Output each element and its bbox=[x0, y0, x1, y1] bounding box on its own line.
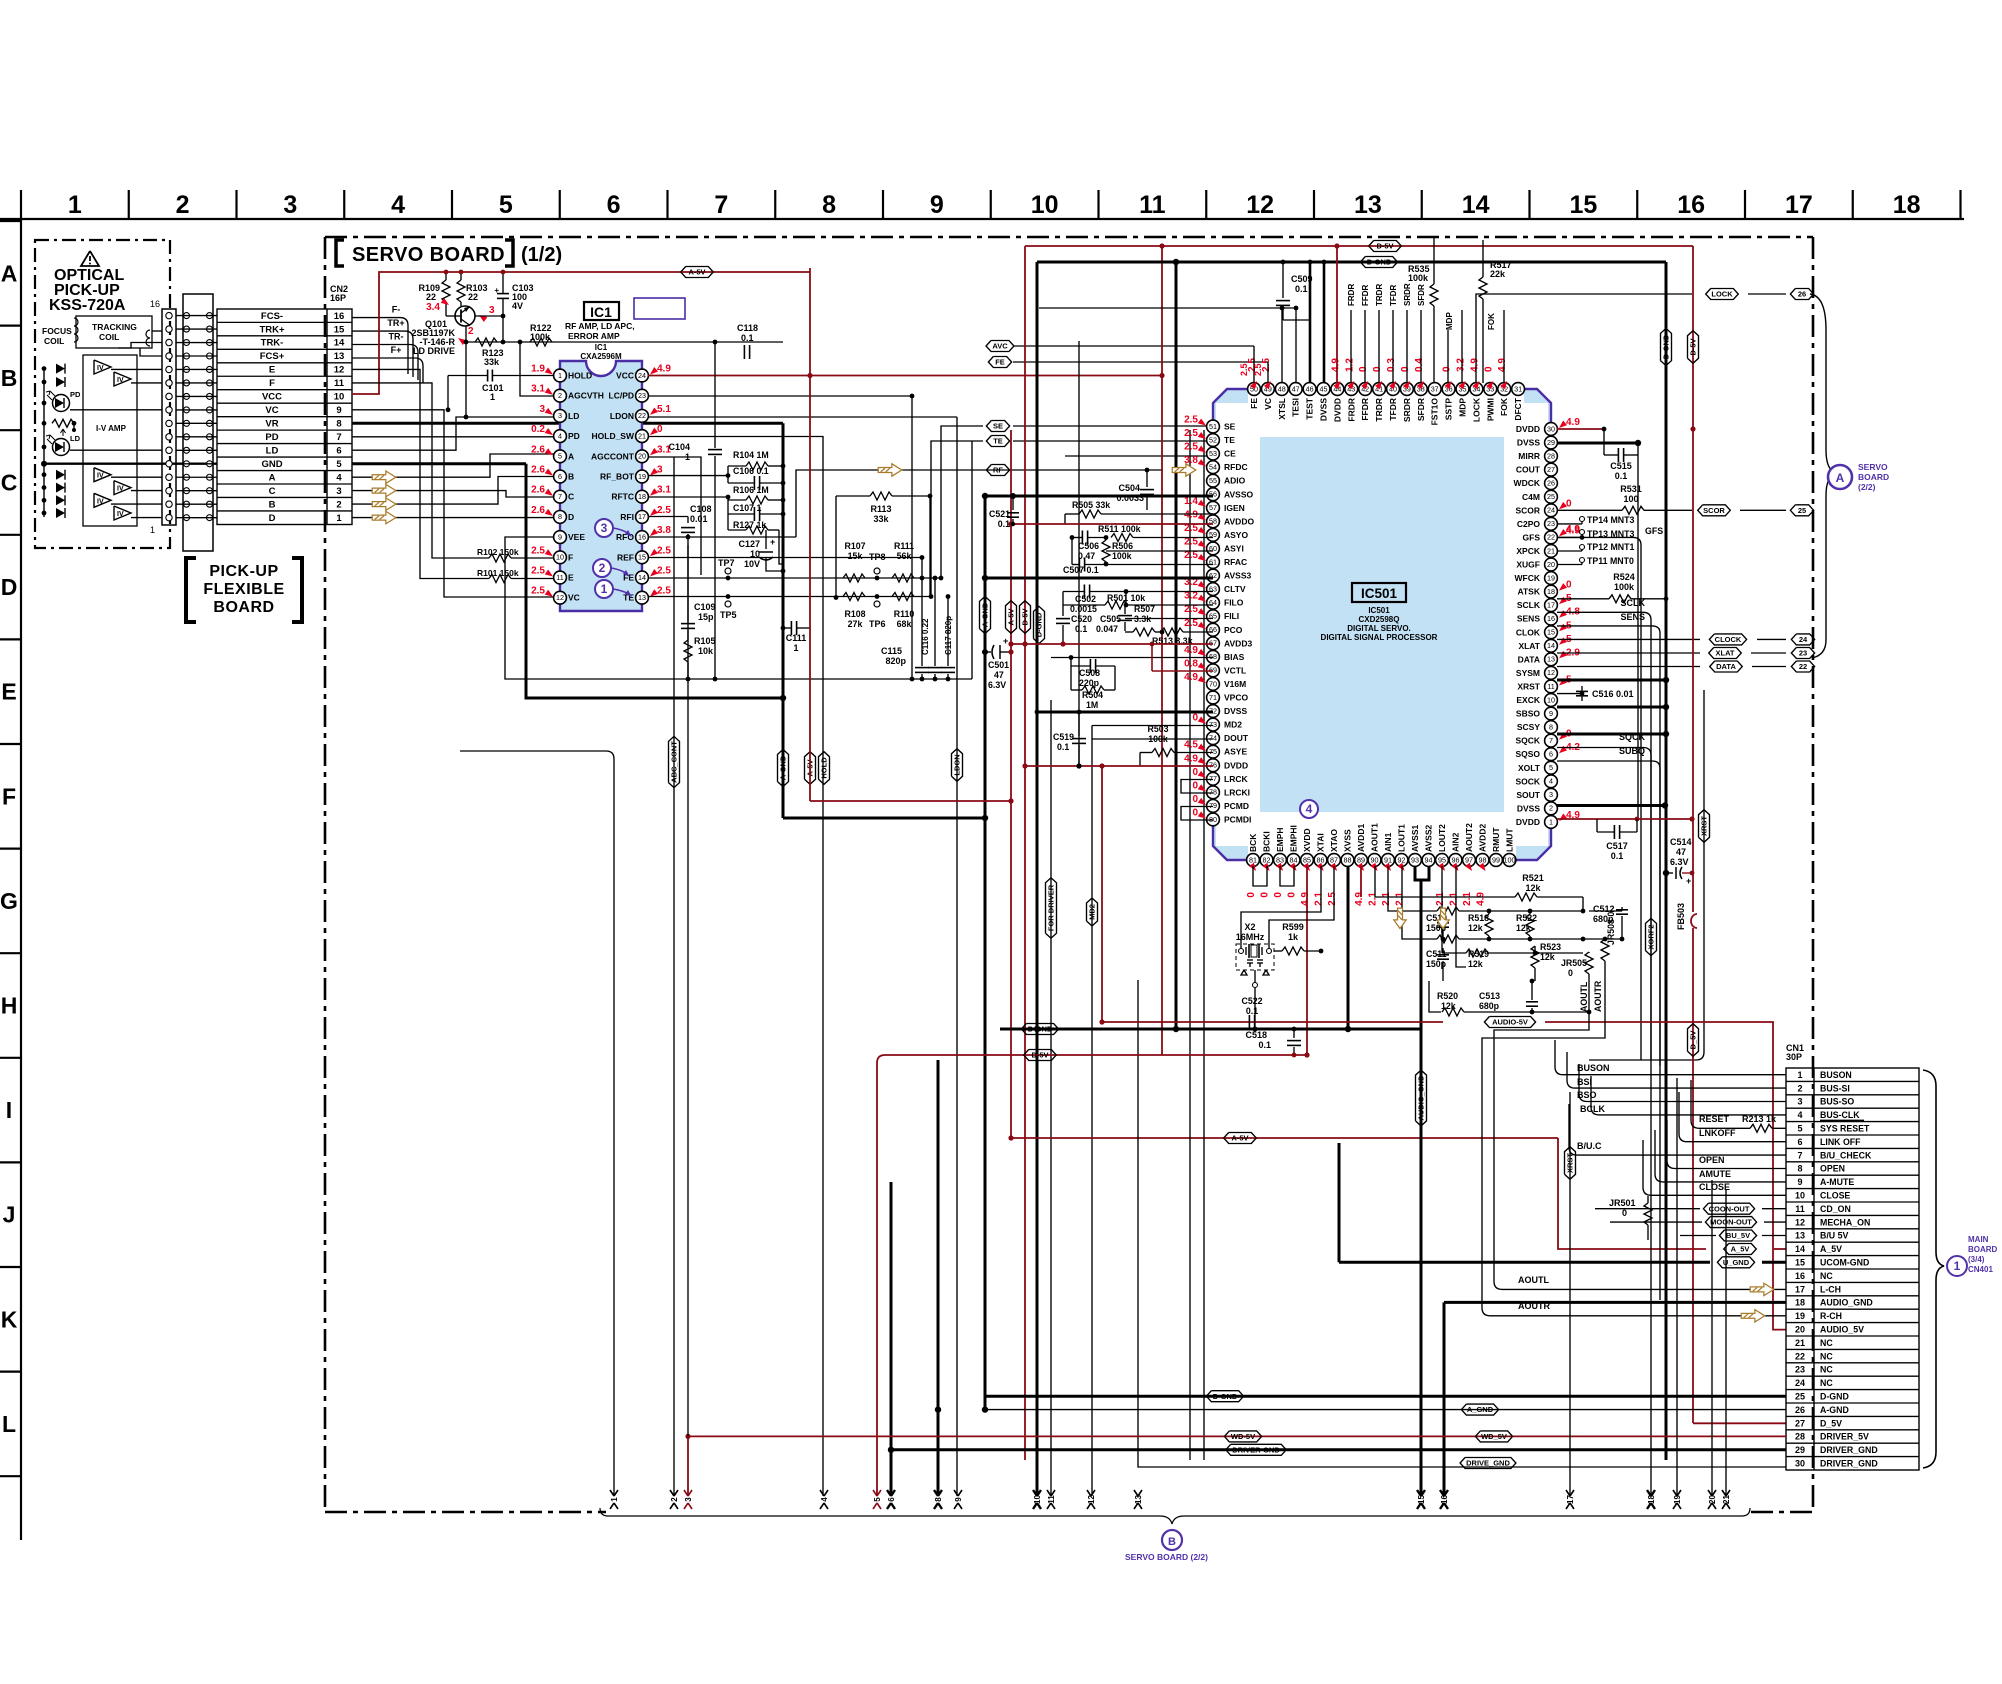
svg-text:1: 1 bbox=[685, 452, 690, 462]
IC501 pin 59 ASYO bbox=[1207, 529, 1220, 542]
svg-text:DRIVE_GND: DRIVE_GND bbox=[1466, 1459, 1510, 1468]
wire LDON bbox=[648, 416, 957, 418]
svg-text:2.5: 2.5 bbox=[1184, 604, 1198, 615]
svg-text:AVSSO: AVSSO bbox=[1224, 489, 1254, 499]
brown arrow L-CH bbox=[1750, 1283, 1774, 1295]
svg-text:R523: R523 bbox=[1540, 942, 1561, 952]
svg-text:14: 14 bbox=[1547, 641, 1555, 650]
svg-text:0.1: 0.1 bbox=[998, 519, 1010, 529]
svg-text:AIN1: AIN1 bbox=[1383, 832, 1393, 852]
svg-text:C520: C520 bbox=[1071, 614, 1092, 624]
IC501 pin 100 LMUT bbox=[1503, 854, 1516, 867]
svg-text:8: 8 bbox=[1549, 722, 1553, 731]
svg-text:R107: R107 bbox=[844, 541, 865, 551]
svg-text:81: 81 bbox=[1249, 855, 1257, 864]
svg-text:PWMI: PWMI bbox=[1485, 398, 1495, 421]
svg-text:IV: IV bbox=[117, 486, 124, 493]
IC501 pin name bands bbox=[1216, 403, 1260, 846]
svg-text:DOUT: DOUT bbox=[1224, 733, 1249, 743]
svg-text:SOUT: SOUT bbox=[1516, 790, 1540, 800]
svg-text:11: 11 bbox=[1139, 191, 1166, 219]
svg-text:CXD2598Q: CXD2598Q bbox=[1359, 615, 1400, 624]
svg-text:FOK: FOK bbox=[1499, 397, 1509, 416]
IC501 pin 15 CLOK bbox=[1545, 626, 1558, 639]
svg-text:3.3k: 3.3k bbox=[1134, 614, 1151, 624]
IC501 pin 26 WDCK bbox=[1545, 477, 1558, 490]
svg-text:COON-OUT: COON-OUT bbox=[1709, 1204, 1750, 1213]
svg-text:10: 10 bbox=[334, 392, 345, 403]
svg-text:91: 91 bbox=[1384, 855, 1392, 864]
svg-text:24: 24 bbox=[638, 371, 646, 380]
IC1 pin 8 D bbox=[554, 511, 567, 524]
svg-text:LOUT2: LOUT2 bbox=[1437, 824, 1447, 852]
svg-text:R504: R504 bbox=[1082, 690, 1103, 700]
svg-text:TP6: TP6 bbox=[869, 619, 886, 629]
svg-text:CLOCK: CLOCK bbox=[1715, 635, 1742, 644]
svg-text:BUSON: BUSON bbox=[1577, 1063, 1610, 1073]
svg-text:SE: SE bbox=[1224, 422, 1236, 432]
svg-text:IV: IV bbox=[117, 377, 124, 384]
IC501 pin 74 DOUT bbox=[1207, 732, 1220, 745]
svg-text:13: 13 bbox=[1795, 1231, 1805, 1241]
IC501 pin 14 XLAT bbox=[1545, 639, 1558, 652]
svg-text:23: 23 bbox=[1799, 649, 1807, 658]
wire XVDD red down bbox=[1306, 866, 1308, 1055]
svg-text:SCOR: SCOR bbox=[1515, 505, 1540, 515]
svg-text:16: 16 bbox=[1795, 1271, 1805, 1281]
IC501 pin 89 AVDD1 bbox=[1355, 854, 1368, 867]
svg-text:90: 90 bbox=[1371, 855, 1379, 864]
svg-text:TP5: TP5 bbox=[720, 610, 737, 620]
wire GND row bold bbox=[44, 463, 217, 465]
wire AOUTL bbox=[1494, 1012, 1589, 1238]
svg-text:5: 5 bbox=[1797, 1124, 1802, 1134]
svg-text:MAIN: MAIN bbox=[1968, 1235, 1989, 1244]
svg-text:CLOSE: CLOSE bbox=[1820, 1191, 1850, 1201]
IC501 pin 64 FILO bbox=[1207, 596, 1220, 609]
svg-text:LOCK: LOCK bbox=[1471, 397, 1481, 422]
svg-text:4.9: 4.9 bbox=[1300, 892, 1311, 906]
svg-text:100k: 100k bbox=[1408, 273, 1429, 283]
svg-text:28: 28 bbox=[1795, 1432, 1805, 1442]
wire D_5V to CN1 pin27 bbox=[1693, 1422, 1786, 1424]
svg-text:2: 2 bbox=[176, 191, 190, 219]
wire PD to IC1 pin4 bbox=[352, 436, 560, 438]
wire C to IC1 pin7 bbox=[352, 491, 560, 497]
svg-text:A: A bbox=[1, 260, 18, 286]
wire Q101 emitter down bbox=[465, 326, 467, 417]
svg-text:4.9: 4.9 bbox=[1476, 892, 1487, 906]
connector strip flexible board bbox=[183, 294, 213, 551]
svg-text:AUDIO-5V: AUDIO-5V bbox=[1492, 1018, 1528, 1027]
svg-text:XPCK: XPCK bbox=[1516, 546, 1540, 556]
svg-text:8: 8 bbox=[336, 419, 341, 430]
svg-text:5: 5 bbox=[499, 191, 513, 219]
node 26 bbox=[1790, 289, 1813, 300]
svg-text:1: 1 bbox=[1797, 1070, 1802, 1080]
svg-text:16: 16 bbox=[1547, 614, 1555, 623]
svg-text:7: 7 bbox=[336, 432, 341, 443]
svg-text:D-5V: D-5V bbox=[1031, 1051, 1048, 1060]
svg-text:SCOR: SCOR bbox=[1703, 506, 1725, 515]
svg-text:4.9: 4.9 bbox=[1354, 892, 1365, 906]
svg-text:FRDR: FRDR bbox=[1347, 284, 1356, 306]
node AUDIO_GND vertical bbox=[1416, 1070, 1427, 1126]
svg-text:AVSS3: AVSS3 bbox=[1224, 571, 1252, 581]
svg-text:(2/2): (2/2) bbox=[1858, 482, 1876, 492]
IC1 callout 1 bbox=[595, 580, 613, 598]
svg-text:REF: REF bbox=[617, 552, 634, 562]
svg-text:C513: C513 bbox=[1479, 991, 1500, 1001]
IC501 pin 57 IGEN bbox=[1207, 501, 1220, 514]
IC1 pin 19 RF_BOT bbox=[636, 470, 649, 483]
IC501 pin 6 SQSO bbox=[1545, 748, 1558, 761]
svg-text:AUDIO_5V: AUDIO_5V bbox=[1820, 1325, 1864, 1335]
IC501 pin 61 RFAC bbox=[1207, 556, 1220, 569]
svg-text:BCK: BCK bbox=[1248, 833, 1258, 852]
svg-text:BU_5V: BU_5V bbox=[1726, 1231, 1750, 1240]
IC501 pin 43 FRDR bbox=[1345, 383, 1358, 396]
svg-text:47: 47 bbox=[1676, 847, 1686, 857]
svg-text:IC501: IC501 bbox=[1361, 586, 1398, 601]
svg-text:46: 46 bbox=[1306, 384, 1314, 393]
IC1 pin 20 AGCCONT bbox=[636, 450, 649, 463]
svg-text:16: 16 bbox=[1440, 1495, 1449, 1504]
svg-text:B: B bbox=[269, 499, 276, 510]
svg-text:R101 150k: R101 150k bbox=[477, 568, 519, 578]
svg-text:RFO: RFO bbox=[616, 532, 634, 542]
IC1 pin 3 LD bbox=[554, 410, 567, 423]
IC501 pin 29 DVSS bbox=[1545, 436, 1558, 449]
svg-text:BCKI: BCKI bbox=[1262, 831, 1272, 852]
svg-text:30: 30 bbox=[1795, 1459, 1805, 1469]
svg-text:R599: R599 bbox=[1282, 922, 1304, 932]
svg-text:LNKOFF: LNKOFF bbox=[1699, 1128, 1736, 1138]
svg-text:DVSS: DVSS bbox=[1319, 398, 1329, 421]
svg-text:2.5: 2.5 bbox=[1184, 442, 1198, 453]
svg-text:13: 13 bbox=[1354, 191, 1382, 219]
node CLOCK bbox=[1557, 638, 1700, 640]
wire LOUT1 row bbox=[1402, 866, 1437, 939]
svg-text:LD: LD bbox=[70, 434, 81, 443]
svg-text:76: 76 bbox=[1209, 761, 1217, 770]
svg-text:87: 87 bbox=[1330, 855, 1338, 864]
svg-text:I-V AMP: I-V AMP bbox=[96, 424, 127, 433]
svg-text:XORF2: XORF2 bbox=[1647, 924, 1656, 949]
svg-text:0: 0 bbox=[1483, 366, 1494, 372]
node FE bbox=[1013, 361, 1268, 363]
svg-text:5: 5 bbox=[1549, 763, 1553, 772]
svg-text:MDP: MDP bbox=[1458, 398, 1468, 417]
I-V amp block bbox=[83, 355, 137, 526]
svg-text:0.1: 0.1 bbox=[1615, 471, 1628, 481]
svg-text:LOCK: LOCK bbox=[1711, 290, 1733, 299]
svg-text:1.9: 1.9 bbox=[531, 364, 545, 375]
IC501 pin 56 AVSSO bbox=[1207, 488, 1220, 501]
svg-text:6: 6 bbox=[558, 472, 562, 481]
svg-text:A-MUTE: A-MUTE bbox=[1820, 1177, 1854, 1187]
svg-text:0: 0 bbox=[1358, 366, 1369, 372]
svg-text:2.5: 2.5 bbox=[1184, 415, 1198, 426]
svg-text:DRIVER_5V: DRIVER_5V bbox=[1820, 1432, 1869, 1442]
svg-text:C107 1: C107 1 bbox=[733, 503, 761, 513]
IC501 pin 18 ATSK bbox=[1545, 585, 1558, 598]
svg-text:ERROR AMP: ERROR AMP bbox=[568, 331, 620, 341]
IC501 pin 97 AOUT2 bbox=[1463, 854, 1476, 867]
svg-text:TFDR: TFDR bbox=[1388, 398, 1398, 421]
svg-text:DATA: DATA bbox=[1716, 662, 1736, 671]
svg-text:0.047: 0.047 bbox=[1096, 624, 1118, 634]
svg-text:73: 73 bbox=[1209, 720, 1217, 729]
riser SSTP MDP bbox=[1447, 330, 1449, 383]
svg-text:13: 13 bbox=[334, 351, 345, 362]
svg-text:JR505: JR505 bbox=[1561, 958, 1587, 968]
IC501 pin 49 VC bbox=[1262, 383, 1275, 396]
bias resistor bbox=[52, 419, 74, 427]
svg-text:PD: PD bbox=[265, 432, 278, 443]
node ABC_CONT bbox=[669, 736, 680, 787]
svg-text:2: 2 bbox=[599, 561, 606, 575]
wire AVSS bold down bbox=[1415, 866, 1429, 880]
test point TP14 bbox=[1557, 523, 1582, 525]
IC501 pin 41 TRDR bbox=[1373, 383, 1386, 396]
svg-text:D: D bbox=[568, 512, 574, 522]
svg-text:DVDD: DVDD bbox=[1516, 817, 1540, 827]
svg-text:820p: 820p bbox=[885, 656, 906, 666]
svg-text:AVDD2: AVDD2 bbox=[1478, 824, 1488, 852]
svg-text:COUT: COUT bbox=[1516, 465, 1541, 475]
wire DVSS2 bold bbox=[1557, 804, 1665, 807]
IC501 pin 27 COUT bbox=[1545, 463, 1558, 476]
svg-text:B: B bbox=[1168, 1536, 1176, 1548]
svg-text:22k: 22k bbox=[1490, 269, 1506, 279]
wire LC/PD bbox=[648, 395, 912, 397]
svg-text:4.9: 4.9 bbox=[1566, 417, 1580, 428]
svg-text:D-GND: D-GND bbox=[1035, 612, 1044, 637]
node XLAT bbox=[1557, 652, 1700, 654]
IC501 pin 73 MD2 bbox=[1207, 718, 1220, 731]
wire audio gnd row bbox=[1293, 1039, 1295, 1041]
svg-text:C519: C519 bbox=[1053, 732, 1074, 742]
svg-text:27: 27 bbox=[1547, 465, 1555, 474]
svg-text:14: 14 bbox=[1462, 191, 1490, 219]
svg-text:6: 6 bbox=[336, 446, 341, 457]
IC501 pin 47 TESI bbox=[1289, 383, 1302, 396]
svg-text:2.6: 2.6 bbox=[531, 505, 545, 516]
svg-text:6.3V: 6.3V bbox=[988, 680, 1006, 690]
IC501 pin 22 GFS bbox=[1545, 531, 1558, 544]
svg-text:C108: C108 bbox=[690, 504, 712, 514]
svg-text:WFCK: WFCK bbox=[1515, 573, 1541, 583]
wire thin vertical 1204 bbox=[1203, 430, 1205, 1460]
svg-text:C106 0.1: C106 0.1 bbox=[733, 466, 769, 476]
svg-text:D_5V: D_5V bbox=[1689, 1031, 1698, 1050]
svg-text:2.5: 2.5 bbox=[1239, 363, 1249, 376]
svg-text:+: + bbox=[1686, 876, 1691, 886]
svg-text:16: 16 bbox=[334, 311, 345, 322]
svg-text:0: 0 bbox=[1442, 366, 1453, 372]
svg-text:A-GND: A-GND bbox=[1820, 1405, 1849, 1415]
svg-text:FST1O: FST1O bbox=[1430, 398, 1440, 426]
svg-text:3: 3 bbox=[558, 411, 562, 420]
svg-text:EMPHI: EMPHI bbox=[1289, 825, 1299, 852]
svg-text:SERVO BOARD: SERVO BOARD bbox=[352, 244, 505, 266]
svg-text:SQCK: SQCK bbox=[1515, 736, 1540, 746]
svg-text:17: 17 bbox=[1785, 191, 1813, 219]
node TE bbox=[931, 441, 983, 597]
IC1 pin 6 B bbox=[554, 470, 567, 483]
svg-text:10: 10 bbox=[556, 553, 564, 562]
svg-text:1: 1 bbox=[610, 1497, 619, 1502]
wire AVDDO red bbox=[1011, 523, 1213, 525]
svg-text:WDCK: WDCK bbox=[1514, 478, 1541, 488]
svg-text:AVSS2: AVSS2 bbox=[1424, 824, 1434, 852]
svg-text:PD: PD bbox=[568, 431, 580, 441]
svg-text:98: 98 bbox=[1479, 855, 1487, 864]
svg-text:0.2: 0.2 bbox=[531, 424, 545, 435]
svg-text:2.1: 2.1 bbox=[1368, 892, 1379, 906]
servo board A label bbox=[1810, 294, 1836, 658]
svg-text:83: 83 bbox=[1276, 855, 1284, 864]
svg-text:FFDR: FFDR bbox=[1360, 398, 1370, 421]
svg-text:1: 1 bbox=[1549, 817, 1553, 826]
svg-text:BOARD: BOARD bbox=[213, 599, 274, 616]
svg-text:57: 57 bbox=[1209, 503, 1217, 512]
svg-text:TE: TE bbox=[993, 437, 1003, 446]
svg-text:C515: C515 bbox=[1610, 461, 1632, 471]
wire D-5V red lower bbox=[877, 1055, 1307, 1496]
test point TP7 bbox=[725, 568, 731, 574]
svg-text:SYSM: SYSM bbox=[1516, 668, 1540, 678]
svg-text:TRK-: TRK- bbox=[261, 338, 284, 349]
svg-text:15: 15 bbox=[1547, 628, 1555, 637]
IC501 pin 51 SE bbox=[1207, 420, 1220, 433]
svg-text:6: 6 bbox=[887, 1497, 896, 1502]
wire D-5V top red bbox=[1025, 245, 1693, 247]
IC501 pin 72 DVSS bbox=[1207, 705, 1220, 718]
wire FILI bbox=[1125, 618, 1213, 620]
transistor Q101 bbox=[455, 306, 475, 326]
test point TP5 bbox=[725, 601, 731, 607]
svg-text:0: 0 bbox=[1566, 580, 1572, 591]
IC501 pin 93 AVSS1 bbox=[1409, 854, 1422, 867]
op-amp IC1 CXA2596M body bbox=[560, 361, 642, 611]
IC501 pin 44 DVDD bbox=[1331, 383, 1344, 396]
svg-text:0: 0 bbox=[1287, 892, 1298, 898]
svg-text:92: 92 bbox=[1398, 855, 1406, 864]
IC501 pin 19 WFCK bbox=[1545, 572, 1558, 585]
node COON-OUT bbox=[1595, 1208, 1700, 1210]
wire stub 1 elbow bbox=[460, 751, 614, 1496]
svg-text:2.5: 2.5 bbox=[657, 505, 671, 516]
wire TE TP5 bbox=[648, 596, 931, 598]
test point TP8 bbox=[874, 568, 880, 574]
svg-text:BOARD: BOARD bbox=[1968, 1245, 1998, 1254]
svg-text:RESET: RESET bbox=[1699, 1114, 1730, 1124]
IC501 pin 90 AOUT1 bbox=[1368, 854, 1381, 867]
svg-text:IC501: IC501 bbox=[1368, 606, 1390, 615]
svg-text:MD2: MD2 bbox=[1224, 720, 1242, 730]
capacitor C515 bbox=[1557, 428, 1604, 430]
svg-text:FE: FE bbox=[995, 358, 1005, 367]
svg-text:SYS RESET: SYS RESET bbox=[1820, 1124, 1870, 1134]
svg-text:20: 20 bbox=[638, 452, 646, 461]
svg-text:OPEN: OPEN bbox=[1820, 1164, 1845, 1174]
svg-text:15: 15 bbox=[1795, 1258, 1805, 1268]
IC501 pin 1 DVDD bbox=[1545, 816, 1558, 829]
svg-text:EXCK: EXCK bbox=[1516, 695, 1540, 705]
svg-text:17: 17 bbox=[638, 512, 646, 521]
IC501 pin 39 SRDR bbox=[1401, 383, 1414, 396]
audio network wires bbox=[1360, 866, 1362, 897]
wire stub risers lower bbox=[673, 457, 675, 1496]
svg-text:R213 1k: R213 1k bbox=[1742, 1114, 1777, 1124]
svg-text:DATA: DATA bbox=[1518, 654, 1540, 664]
wire BIAS bbox=[1051, 657, 1213, 659]
svg-text:FILI: FILI bbox=[1224, 611, 1239, 621]
svg-text:R507: R507 bbox=[1134, 604, 1155, 614]
bottom connection stubs bbox=[610, 1490, 618, 1509]
IC1 pin 14 FE bbox=[636, 571, 649, 584]
svg-text:ASYI: ASYI bbox=[1224, 543, 1244, 553]
svg-text:3: 3 bbox=[657, 465, 663, 476]
wire REF bbox=[648, 557, 922, 559]
resistor R523 bbox=[1531, 946, 1539, 968]
svg-text:0.4: 0.4 bbox=[1414, 358, 1425, 372]
svg-text:C502: C502 bbox=[1075, 594, 1096, 604]
svg-text:10: 10 bbox=[1547, 695, 1555, 704]
svg-text:1: 1 bbox=[793, 643, 798, 653]
svg-text:12k: 12k bbox=[1468, 959, 1483, 969]
svg-text:R111: R111 bbox=[894, 541, 914, 551]
IC501 pin 66 PCO bbox=[1207, 623, 1220, 636]
svg-text:BUS-SI: BUS-SI bbox=[1820, 1083, 1850, 1093]
warning triangle bbox=[81, 251, 99, 266]
svg-text:R106 1M: R106 1M bbox=[733, 485, 769, 495]
riser FRDR group bbox=[1350, 310, 1352, 383]
svg-text:J: J bbox=[3, 1202, 16, 1228]
svg-text:XLAT: XLAT bbox=[1518, 641, 1540, 651]
svg-text:22: 22 bbox=[1547, 533, 1555, 542]
svg-text:LC/PD: LC/PD bbox=[609, 391, 635, 401]
svg-text:0.01: 0.01 bbox=[690, 514, 708, 524]
svg-text:ATSK: ATSK bbox=[1517, 587, 1540, 597]
svg-text:R108: R108 bbox=[844, 609, 865, 619]
svg-text:SCLK: SCLK bbox=[1517, 600, 1541, 610]
riser FOK bbox=[1503, 310, 1505, 383]
svg-text:0: 0 bbox=[1260, 892, 1271, 898]
svg-text:VCC: VCC bbox=[616, 371, 634, 381]
svg-text:4.9: 4.9 bbox=[1184, 753, 1198, 764]
svg-text:12: 12 bbox=[334, 365, 345, 376]
svg-text:79: 79 bbox=[1209, 801, 1217, 810]
wire A-GND vertical 1079 bbox=[1078, 341, 1080, 766]
wire D-GND bottom bold bbox=[985, 1395, 1786, 1398]
svg-text:CLTV: CLTV bbox=[1224, 584, 1246, 594]
IC1 pin 13 TE bbox=[636, 591, 649, 604]
svg-text:LINK OFF: LINK OFF bbox=[1820, 1137, 1861, 1147]
svg-text:4.9: 4.9 bbox=[1184, 509, 1198, 520]
svg-text:4.9: 4.9 bbox=[657, 364, 671, 375]
svg-text:74: 74 bbox=[1209, 733, 1217, 742]
svg-text:D-GND: D-GND bbox=[1820, 1392, 1849, 1402]
svg-text:16: 16 bbox=[638, 532, 646, 541]
svg-text:16P: 16P bbox=[330, 293, 346, 303]
svg-text:C118: C118 bbox=[737, 323, 758, 333]
svg-text:4: 4 bbox=[558, 431, 562, 440]
svg-text:25: 25 bbox=[1547, 492, 1555, 501]
wire DRIVER_GND pin30 bbox=[1137, 1466, 1139, 1468]
